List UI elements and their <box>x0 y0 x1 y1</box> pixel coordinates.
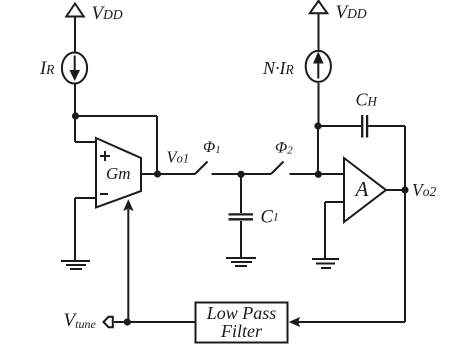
svg-text:Vtune: Vtune <box>64 310 97 331</box>
svg-text:A: A <box>354 177 369 201</box>
svg-text:Φ2: Φ2 <box>275 140 293 157</box>
svg-text:Vo1: Vo1 <box>167 148 190 167</box>
svg-text:CH: CH <box>356 90 378 110</box>
svg-text:Filter: Filter <box>220 321 263 341</box>
svg-text:IR: IR <box>39 59 55 79</box>
svg-text:N·IR: N·IR <box>262 58 295 78</box>
svg-text:VDD: VDD <box>92 3 123 24</box>
svg-text:C1: C1 <box>261 208 279 228</box>
svg-text:Gm: Gm <box>106 164 131 183</box>
svg-text:Φ1: Φ1 <box>203 139 221 156</box>
svg-text:Vo2: Vo2 <box>412 180 436 200</box>
svg-text:VDD: VDD <box>336 2 367 23</box>
svg-text:Low Pass: Low Pass <box>206 303 277 323</box>
